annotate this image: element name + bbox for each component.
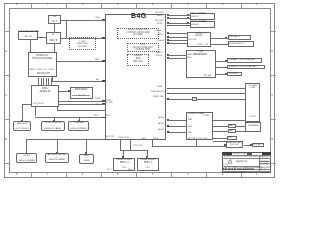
pin label FMI_ISP0 bbox=[155, 12, 164, 14]
title block row2 bbox=[222, 155, 271, 156]
wire SoC to dock 2 bbox=[167, 93, 245, 94]
gyro block bbox=[16, 153, 37, 163]
wire bus to compass bbox=[79, 117, 80, 122]
speaker amp 2 block bbox=[228, 129, 236, 133]
wire BZ to LL bbox=[54, 24, 55, 32]
wire label I2S0 bbox=[96, 17, 100, 19]
wire SoC video to LDO bbox=[167, 99, 192, 100]
wire SoC to wifi 1 bbox=[167, 33, 188, 34]
wire PMU down to I2C bus bbox=[35, 107, 36, 116]
bus labels CLE bbox=[133, 145, 142, 147]
pin label usb bbox=[157, 86, 162, 88]
wire backlight driver down to display bbox=[30, 40, 31, 52]
wire bus2 to gyro bbox=[26, 139, 27, 153]
wire BZ to SoC bbox=[61, 20, 105, 21]
border zone ticks left bbox=[4, 31, 10, 32]
sheet outer border bbox=[4, 3, 275, 178]
pin label jack3 bbox=[158, 129, 164, 131]
wire LL to display bbox=[54, 44, 55, 52]
wire PMU to battery bbox=[59, 91, 70, 92]
NAND flash block 2 bbox=[137, 158, 160, 171]
speaker amp 1 block bbox=[228, 124, 236, 128]
NAND flash block 1 bbox=[113, 158, 135, 171]
LPDDR2 dashed block bbox=[69, 37, 97, 51]
diversity cellular antenna block bbox=[227, 65, 265, 70]
wire SoC to face camera b bbox=[167, 18, 190, 19]
primary cellular antenna block bbox=[227, 58, 262, 63]
wire amp1 to speaker bbox=[236, 126, 245, 127]
wire amp2 to speaker bbox=[236, 131, 245, 132]
baseband modem block bbox=[186, 50, 216, 78]
mic block bbox=[227, 136, 237, 140]
pin label i2c1 inside bbox=[106, 115, 110, 117]
wire SoC to dock 1 bbox=[167, 88, 245, 89]
apple inc text bbox=[236, 160, 248, 163]
AUDIO dashed block bbox=[127, 54, 150, 66]
pin label UART bbox=[156, 52, 163, 54]
gps antenna block bbox=[227, 72, 242, 77]
pin label i2c1 bbox=[94, 115, 98, 117]
wifi/bt block bbox=[187, 32, 211, 48]
pin label i2c2 bbox=[106, 136, 114, 138]
PMU block bbox=[31, 85, 59, 108]
wire codec to amp2 bbox=[213, 131, 228, 132]
wire power button vertical bbox=[22, 104, 23, 122]
wire SoC to codec 2 bbox=[167, 126, 187, 127]
border zone ticks bottom bbox=[31, 173, 32, 178]
pin bullets SoC left edge bbox=[102, 19, 104, 21]
wire SoC to rear camera b bbox=[167, 25, 190, 26]
ALS block bbox=[79, 154, 93, 164]
wire modem to primary ant bbox=[216, 61, 228, 62]
pin label pwr inside bbox=[106, 100, 112, 105]
wire modem to gps ant bbox=[216, 74, 228, 75]
wire SoC to wifi 4 bbox=[167, 43, 188, 44]
arrowheads into right boxes bbox=[187, 14, 189, 15]
wire PMU bottom tap vertical bbox=[57, 107, 58, 110]
pin label WLAN bbox=[156, 30, 163, 32]
border zone ticks right bbox=[270, 31, 276, 32]
zone numbers bottom bbox=[16, 174, 17, 177]
wire codec to amp1 bbox=[213, 126, 228, 127]
wire display to SoC bbox=[57, 61, 105, 62]
title block frame bbox=[222, 152, 271, 173]
wire BZ branch vertical bbox=[66, 20, 67, 38]
audio codec block bbox=[186, 112, 213, 140]
power button block bbox=[13, 121, 31, 131]
external mic block bbox=[252, 143, 264, 148]
pin label jack2 bbox=[158, 123, 164, 125]
wire SoC to modem 2 bbox=[167, 58, 186, 59]
sensor bus row2 bbox=[26, 139, 105, 140]
GPU dashed block bbox=[127, 43, 159, 52]
pin label video dac bbox=[153, 96, 164, 98]
backlight wires bbox=[38, 78, 39, 85]
wire wifi to ant1 bbox=[211, 38, 228, 39]
backlight driver block bbox=[18, 31, 38, 40]
wire PMU to power button horiz bbox=[22, 104, 31, 105]
pin label blt bbox=[96, 79, 100, 81]
FMI bus stub 2 bbox=[130, 140, 131, 151]
pin label displayport bbox=[151, 91, 165, 93]
wire LL to SoC over LPDDR2 bbox=[61, 38, 105, 39]
dock connector block bbox=[245, 83, 261, 122]
wire wifi to ant2 bbox=[211, 44, 228, 45]
pin label FMI_ISP1 bbox=[155, 20, 164, 22]
wire headset to ext mic bbox=[244, 145, 252, 146]
wire codec to dock bbox=[213, 120, 245, 121]
border zone ticks top bbox=[31, 3, 32, 8]
apple logo bbox=[228, 160, 232, 165]
bt/wifi antenna 2 block bbox=[228, 41, 255, 47]
sheet inner border bbox=[9, 8, 271, 173]
title block right column divider bbox=[259, 155, 260, 173]
wire modem to diversity ant bbox=[216, 67, 228, 68]
FMI bus horizontal jog bbox=[120, 150, 147, 151]
bus labels PCE bbox=[118, 137, 129, 139]
wire SoC to modem 1 bbox=[167, 55, 186, 56]
FMI bus stub 1 bbox=[120, 140, 121, 151]
SoC title B4G bbox=[131, 13, 167, 21]
zone letters right bbox=[272, 51, 274, 54]
wire LDO to dock bbox=[197, 99, 245, 100]
hall sensor block bbox=[41, 121, 65, 131]
wire SoC to wifi 3 bbox=[167, 40, 188, 41]
zone letters left bbox=[6, 51, 8, 54]
wire to NAND2 bbox=[147, 150, 148, 158]
codec-left block LL bbox=[46, 32, 61, 43]
wire PMU tap to SoC bbox=[57, 110, 105, 111]
title block header dark cells bbox=[223, 152, 232, 155]
wire to NAND1 bbox=[123, 150, 124, 158]
pin label pwr bbox=[95, 98, 100, 100]
headset jack block bbox=[226, 141, 243, 148]
pin label jack1 bbox=[158, 117, 164, 119]
wire bus2 to ALS bbox=[86, 139, 87, 154]
display / touch panel block bbox=[28, 52, 58, 77]
pin label mipi bbox=[95, 59, 99, 61]
buzzer block BZ bbox=[48, 15, 60, 25]
battery block bbox=[70, 87, 93, 99]
wire headset bus bbox=[152, 146, 226, 147]
title block name row bold bbox=[222, 169, 271, 170]
NAND footnote labels bbox=[107, 169, 111, 171]
wire SoC to wifi 2 bbox=[167, 37, 188, 38]
wire display aux to SoC bbox=[52, 81, 105, 82]
wire SoC down headset vertical bbox=[152, 140, 153, 146]
wire SoC to rear camera a bbox=[167, 23, 190, 24]
wire display aux vertical bbox=[52, 77, 53, 81]
wifi antenna 1 block bbox=[228, 35, 252, 41]
SoC block B4G bbox=[105, 14, 167, 140]
face camera block bbox=[190, 13, 216, 20]
wire SoC to face camera a bbox=[167, 15, 190, 16]
compass block bbox=[68, 121, 90, 131]
rear camera block bbox=[190, 21, 216, 28]
LDO block bbox=[192, 97, 198, 101]
title block size row bbox=[222, 171, 271, 172]
speaker block bbox=[245, 122, 261, 132]
wire bus2 to accelerometer bbox=[57, 139, 58, 153]
I2C sensor bus bbox=[35, 117, 105, 118]
wire codec to mic bbox=[213, 138, 227, 139]
wire backlight driver to LL bbox=[38, 37, 46, 38]
wire SoC to codec 1 bbox=[167, 120, 187, 121]
wire codec to headset top bbox=[213, 141, 226, 142]
wire PMU to SoC 1 bbox=[59, 101, 105, 102]
title block title row bbox=[222, 166, 259, 167]
pin bullets SoC right edge bbox=[167, 14, 169, 16]
title block right column rows bbox=[259, 161, 272, 162]
accelerometer block bbox=[45, 153, 69, 163]
wire codec bottom to headset bus bbox=[196, 140, 197, 146]
wire SoC to codec 3 bbox=[167, 132, 187, 133]
wire bus to code sensor bbox=[54, 117, 55, 122]
pin label spi bbox=[96, 104, 99, 106]
CPU dashed block bbox=[117, 28, 159, 40]
wire PMU to SoC 2 bbox=[59, 104, 105, 105]
zone numbers top bbox=[16, 4, 17, 7]
